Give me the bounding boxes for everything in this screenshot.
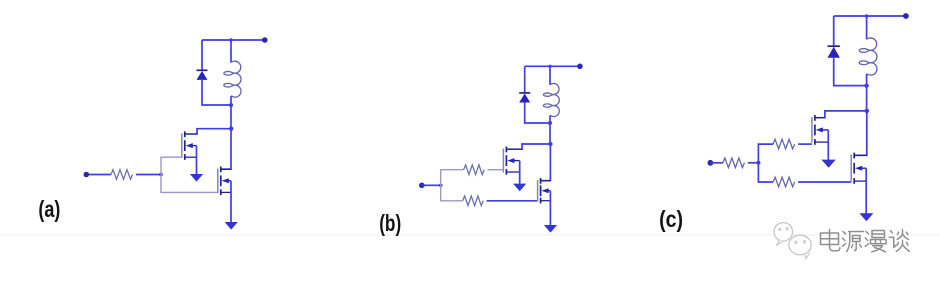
wire inductor branch lower b xyxy=(549,116,551,124)
resistor R6 xyxy=(773,177,795,187)
wire input c xyxy=(710,162,723,164)
node bottom of LD block a xyxy=(229,103,233,107)
node gate junction a xyxy=(159,173,163,177)
inductor L3 xyxy=(859,38,877,75)
wire M6 drain route c xyxy=(854,111,866,155)
wire diode branch lower c xyxy=(834,58,867,86)
svg-text:(a): (a) xyxy=(38,196,60,222)
transistor M5 (upper depletion NMOS) c xyxy=(812,115,828,145)
wire gate branch to M1 a xyxy=(161,157,182,174)
wire M4 stem to ground b xyxy=(549,191,551,226)
node bottom of LD block c xyxy=(864,83,868,87)
terminal input c xyxy=(708,160,714,166)
transistor M2 (lower NMOS switch) a xyxy=(218,167,231,196)
wire R3 to M4 gate b xyxy=(487,200,538,202)
wire inductor branch lower a xyxy=(230,96,232,105)
transistor M3 (upper depletion NMOS) b xyxy=(503,147,522,175)
node top junction a xyxy=(229,38,232,41)
resistor R1 xyxy=(111,170,133,180)
terminal input a xyxy=(84,172,90,178)
transistor M4 (lower NMOS switch) b xyxy=(538,178,551,203)
ground under M1 a xyxy=(190,174,203,182)
node drain junction c xyxy=(865,109,870,114)
wire rail a xyxy=(230,105,232,129)
watermark char yuan xyxy=(842,232,863,252)
terminal output a xyxy=(262,37,268,43)
wire M5 stem to ground c xyxy=(827,130,829,160)
svg-text:(c): (c) xyxy=(659,206,683,232)
ground under M5 c xyxy=(821,160,835,168)
wire lower branch c xyxy=(758,163,773,182)
wire resistor to gate node a xyxy=(136,174,161,176)
watermark char dian xyxy=(821,230,840,251)
wire M2 stem to ground a xyxy=(230,181,232,222)
node top junction c xyxy=(865,14,869,18)
wire M6 stem to ground c xyxy=(865,168,867,213)
transistor M1 (upper depletion NMOS) a xyxy=(182,131,197,160)
ground under M4 b xyxy=(544,225,557,233)
faint divider line xyxy=(0,234,940,236)
wire top rail c xyxy=(834,15,906,17)
resistor R3 xyxy=(463,196,484,206)
wire top rail a xyxy=(202,39,265,41)
wire inductor branch upper c xyxy=(866,16,868,39)
wire M3 stem to ground b xyxy=(519,161,521,184)
wire M3 drain route b xyxy=(522,144,550,149)
node drain junction a xyxy=(229,127,233,131)
wire R5 to M5 gate c xyxy=(798,143,812,145)
node drain junction b xyxy=(548,142,552,146)
ground under M3 b xyxy=(513,184,526,192)
wire R6 to M6 gate c xyxy=(798,181,851,183)
wire M5 drain route c xyxy=(825,111,867,118)
diode D1 xyxy=(197,69,208,71)
wire input a xyxy=(86,174,111,176)
watermark char tan xyxy=(889,230,909,252)
resistor R4 (series input) xyxy=(723,158,745,168)
node bottom of LD block b xyxy=(548,121,552,125)
svg-text:(b): (b) xyxy=(379,210,401,236)
wire inductor branch upper a xyxy=(230,40,232,63)
logo right bubble eyes xyxy=(795,241,797,243)
node input junction b xyxy=(439,184,443,188)
wire diode branch upper a xyxy=(201,40,203,70)
logo right bubble xyxy=(789,235,811,255)
resistor R2 xyxy=(464,165,485,175)
wire lower branch b xyxy=(441,185,463,201)
wire M2 drain route a xyxy=(221,129,231,170)
watermark char man xyxy=(865,231,886,252)
wire rail b xyxy=(549,123,551,144)
wire diode branch upper b xyxy=(524,66,526,93)
inductor L2 xyxy=(543,83,559,116)
ground under M2 a xyxy=(225,222,238,230)
wire upper branch c xyxy=(758,144,773,163)
diode D2 xyxy=(519,92,530,94)
ground under M6 c xyxy=(859,213,873,221)
wire diode branch upper c xyxy=(833,16,835,46)
node input junction c xyxy=(756,161,760,165)
diode D3 xyxy=(828,45,840,47)
resistor R5 xyxy=(773,139,795,149)
logo left bubble xyxy=(774,223,793,241)
transistor M6 (lower NMOS switch) c xyxy=(851,153,867,184)
wire inductor branch lower c xyxy=(866,74,868,86)
terminal input b xyxy=(419,183,425,189)
wire rail c xyxy=(866,86,868,111)
inductor L1 xyxy=(224,61,241,97)
wire gate branch to M2 a xyxy=(161,175,218,193)
wire M4 drain route b xyxy=(540,144,550,181)
node top junction b xyxy=(548,65,551,68)
wire input b xyxy=(422,184,441,186)
terminal output c xyxy=(903,13,909,19)
logo left bubble eyes xyxy=(779,228,781,230)
wire R4 to junction c xyxy=(748,162,759,164)
wire R2 to M3 gate b xyxy=(488,169,504,171)
wire diode branch lower a xyxy=(202,80,231,105)
wire inductor branch upper b xyxy=(549,66,551,84)
wire diode branch lower b xyxy=(525,103,550,124)
wire upper branch b xyxy=(441,170,464,186)
wire M1 stem to ground a xyxy=(196,146,198,175)
wire M1 drain route a xyxy=(197,129,231,134)
wire top rail b xyxy=(525,65,580,67)
terminal output b xyxy=(577,64,583,70)
